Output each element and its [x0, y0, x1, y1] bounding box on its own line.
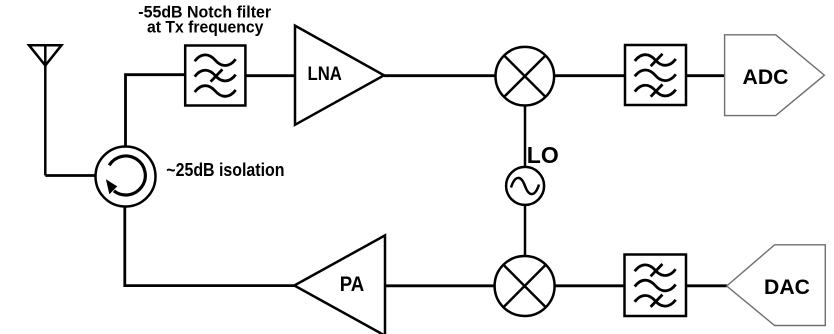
- circulator U1: [96, 147, 156, 207]
- wire LNA to mixer M1: [384, 74, 495, 77]
- wire notch filter to LNA: [246, 74, 295, 77]
- antenna ANT: [29, 45, 62, 175]
- svg-text:~25dB isolation: ~25dB isolation: [166, 160, 284, 180]
- mixer M1: [496, 47, 555, 106]
- op-amp PA: [294, 235, 385, 334]
- svg-text:DAC: DAC: [764, 275, 810, 299]
- wire LO to mixer M2: [524, 205, 527, 256]
- wire mixer M1 to LO: [524, 106, 527, 168]
- mixer M2: [495, 256, 555, 316]
- filter FL2: [625, 45, 686, 105]
- wire circulator to notch filter: [126, 75, 186, 147]
- svg-text:ADC: ADC: [743, 65, 789, 89]
- filter FL3: [625, 255, 687, 317]
- wire PA to circulator: [125, 207, 294, 286]
- wire filter FL2 to ADC: [686, 74, 724, 77]
- DAC block: [727, 245, 826, 326]
- svg-text:LO: LO: [527, 142, 559, 168]
- op-amp LNA: [295, 26, 384, 125]
- wire antenna to circulator: [45, 174, 95, 177]
- wire mixer M1 to filter FL2: [554, 74, 625, 77]
- oscillator LO: [506, 167, 544, 205]
- wire filter FL3 to DAC: [686, 284, 727, 287]
- wire mixer M2 to filter FL3: [555, 284, 625, 287]
- svg-text:LNA: LNA: [308, 64, 343, 85]
- wire mixer M2 to PA: [386, 284, 495, 287]
- svg-text:PA: PA: [340, 273, 365, 296]
- ADC block: [725, 35, 825, 116]
- notch filter FL1: [185, 46, 245, 106]
- svg-text:at Tx frequency: at Tx frequency: [147, 17, 264, 36]
